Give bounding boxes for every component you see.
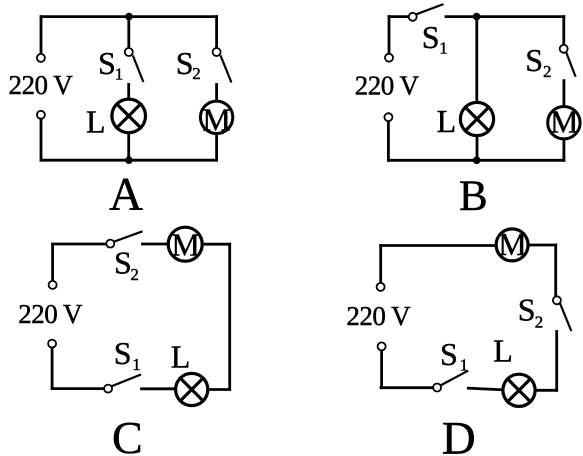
wire B bottom bus [388,159,563,162]
wire D bottom left [381,386,433,389]
switch S2 (circuit D) [553,296,571,330]
wire C bottom middle [142,387,175,390]
switch S2 (circuit C) [106,232,141,248]
svg-text:1: 1 [132,355,141,374]
svg-text:L: L [437,103,457,139]
switch S1 (circuit C) [104,375,140,393]
wire A left vertical lower [40,120,43,161]
wire C top right [204,243,230,246]
wire B lamp to bottom [476,137,479,160]
motor M (circuit B) [548,107,580,139]
wire D bottom right [537,389,557,392]
svg-text:M: M [202,102,230,138]
wire A middle branch drop [127,17,130,48]
wire A left vertical upper [40,17,43,54]
wire D right vertical lower [555,332,558,391]
wire B top right [446,15,564,18]
wire B S2 to motor [563,81,566,106]
svg-text:2: 2 [130,265,139,284]
wire A S2 to motor [215,85,218,101]
svg-text:A: A [109,168,143,220]
wire A top bus [41,15,217,18]
wire C top left [53,243,106,246]
switch S1 (circuit B) [409,5,443,21]
svg-text:1: 1 [439,38,448,57]
wire D left vertical lower [380,351,383,388]
wire B motor to bottom [563,140,566,160]
wire A bottom bus [41,159,217,162]
wire C left vertical upper [51,244,54,280]
svg-text:B: B [459,173,488,220]
svg-text:M: M [171,227,199,263]
node B top junction [473,13,481,21]
svg-text:220 V: 220 V [18,299,83,329]
battery 220V terminal B lower [384,113,392,121]
lamp L (circuit D) [503,374,535,406]
wire A right branch drop [215,17,218,48]
wire D right vertical upper [554,245,557,296]
wire B right vertical upper [562,17,565,45]
motor M (circuit D) [496,229,528,261]
svg-text:1: 1 [460,356,469,375]
battery 220V terminal D lower [378,342,386,350]
battery 220V terminal D upper [377,283,385,291]
battery 220V terminal A upper [37,54,45,62]
svg-text:S: S [422,19,440,55]
svg-text:220 V: 220 V [9,70,74,100]
switch S2 (circuit A) [213,48,231,82]
svg-text:1: 1 [115,64,124,83]
battery 220V terminal A lower [37,111,45,119]
wire D top left [381,244,496,247]
svg-text:2: 2 [192,64,201,83]
wire D top right [530,244,556,247]
wire C right vertical [228,244,231,389]
switch S1 (circuit A) [125,48,143,81]
svg-text:S: S [114,335,132,371]
wire C top middle [143,243,169,246]
wire C left vertical lower [51,348,54,388]
wire A lamp to bottom [127,134,130,161]
svg-text:C: C [112,412,143,456]
wire A motor to bottom [215,135,218,160]
wire A S1 to lamp [127,85,130,99]
svg-text:M: M [550,103,578,139]
svg-text:2: 2 [543,62,552,81]
svg-text:S: S [176,45,194,81]
svg-text:S: S [114,244,132,280]
lamp L (circuit B) [460,102,493,135]
svg-text:M: M [498,226,526,262]
svg-text:S: S [440,336,458,372]
wire B left vertical lower [387,122,390,161]
svg-text:L: L [86,103,106,139]
motor M (circuit A) [200,101,232,133]
battery 220V terminal B upper [385,54,393,62]
lamp L (circuit C) [176,373,208,405]
svg-text:S: S [98,45,116,81]
node A bottom junction [125,156,133,164]
svg-text:220 V: 220 V [346,301,411,331]
node A top junction [125,13,133,21]
battery 220V terminal C upper [49,281,57,289]
svg-text:2: 2 [535,313,544,332]
wire C bottom right [210,388,230,391]
wire D bottom middle [468,388,503,390]
svg-text:S: S [518,291,536,327]
wire C bottom left [52,387,104,390]
svg-text:L: L [493,332,513,368]
wire B left vertical upper [388,17,391,54]
svg-text:L: L [171,339,191,375]
svg-text:S: S [525,42,543,78]
svg-text:D: D [442,412,476,456]
switch S1 (circuit D) [433,371,467,391]
node B bottom junction [473,157,481,165]
svg-text:220 V: 220 V [355,71,420,101]
battery 220V terminal C lower [48,340,56,348]
switch S2 (circuit B) [560,45,576,76]
wire B top left [389,15,408,18]
wire B middle drop to lamp [475,17,478,102]
lamp L (circuit A) [112,99,146,133]
wire D left vertical upper [379,246,382,283]
motor M (circuit C) [168,227,202,261]
